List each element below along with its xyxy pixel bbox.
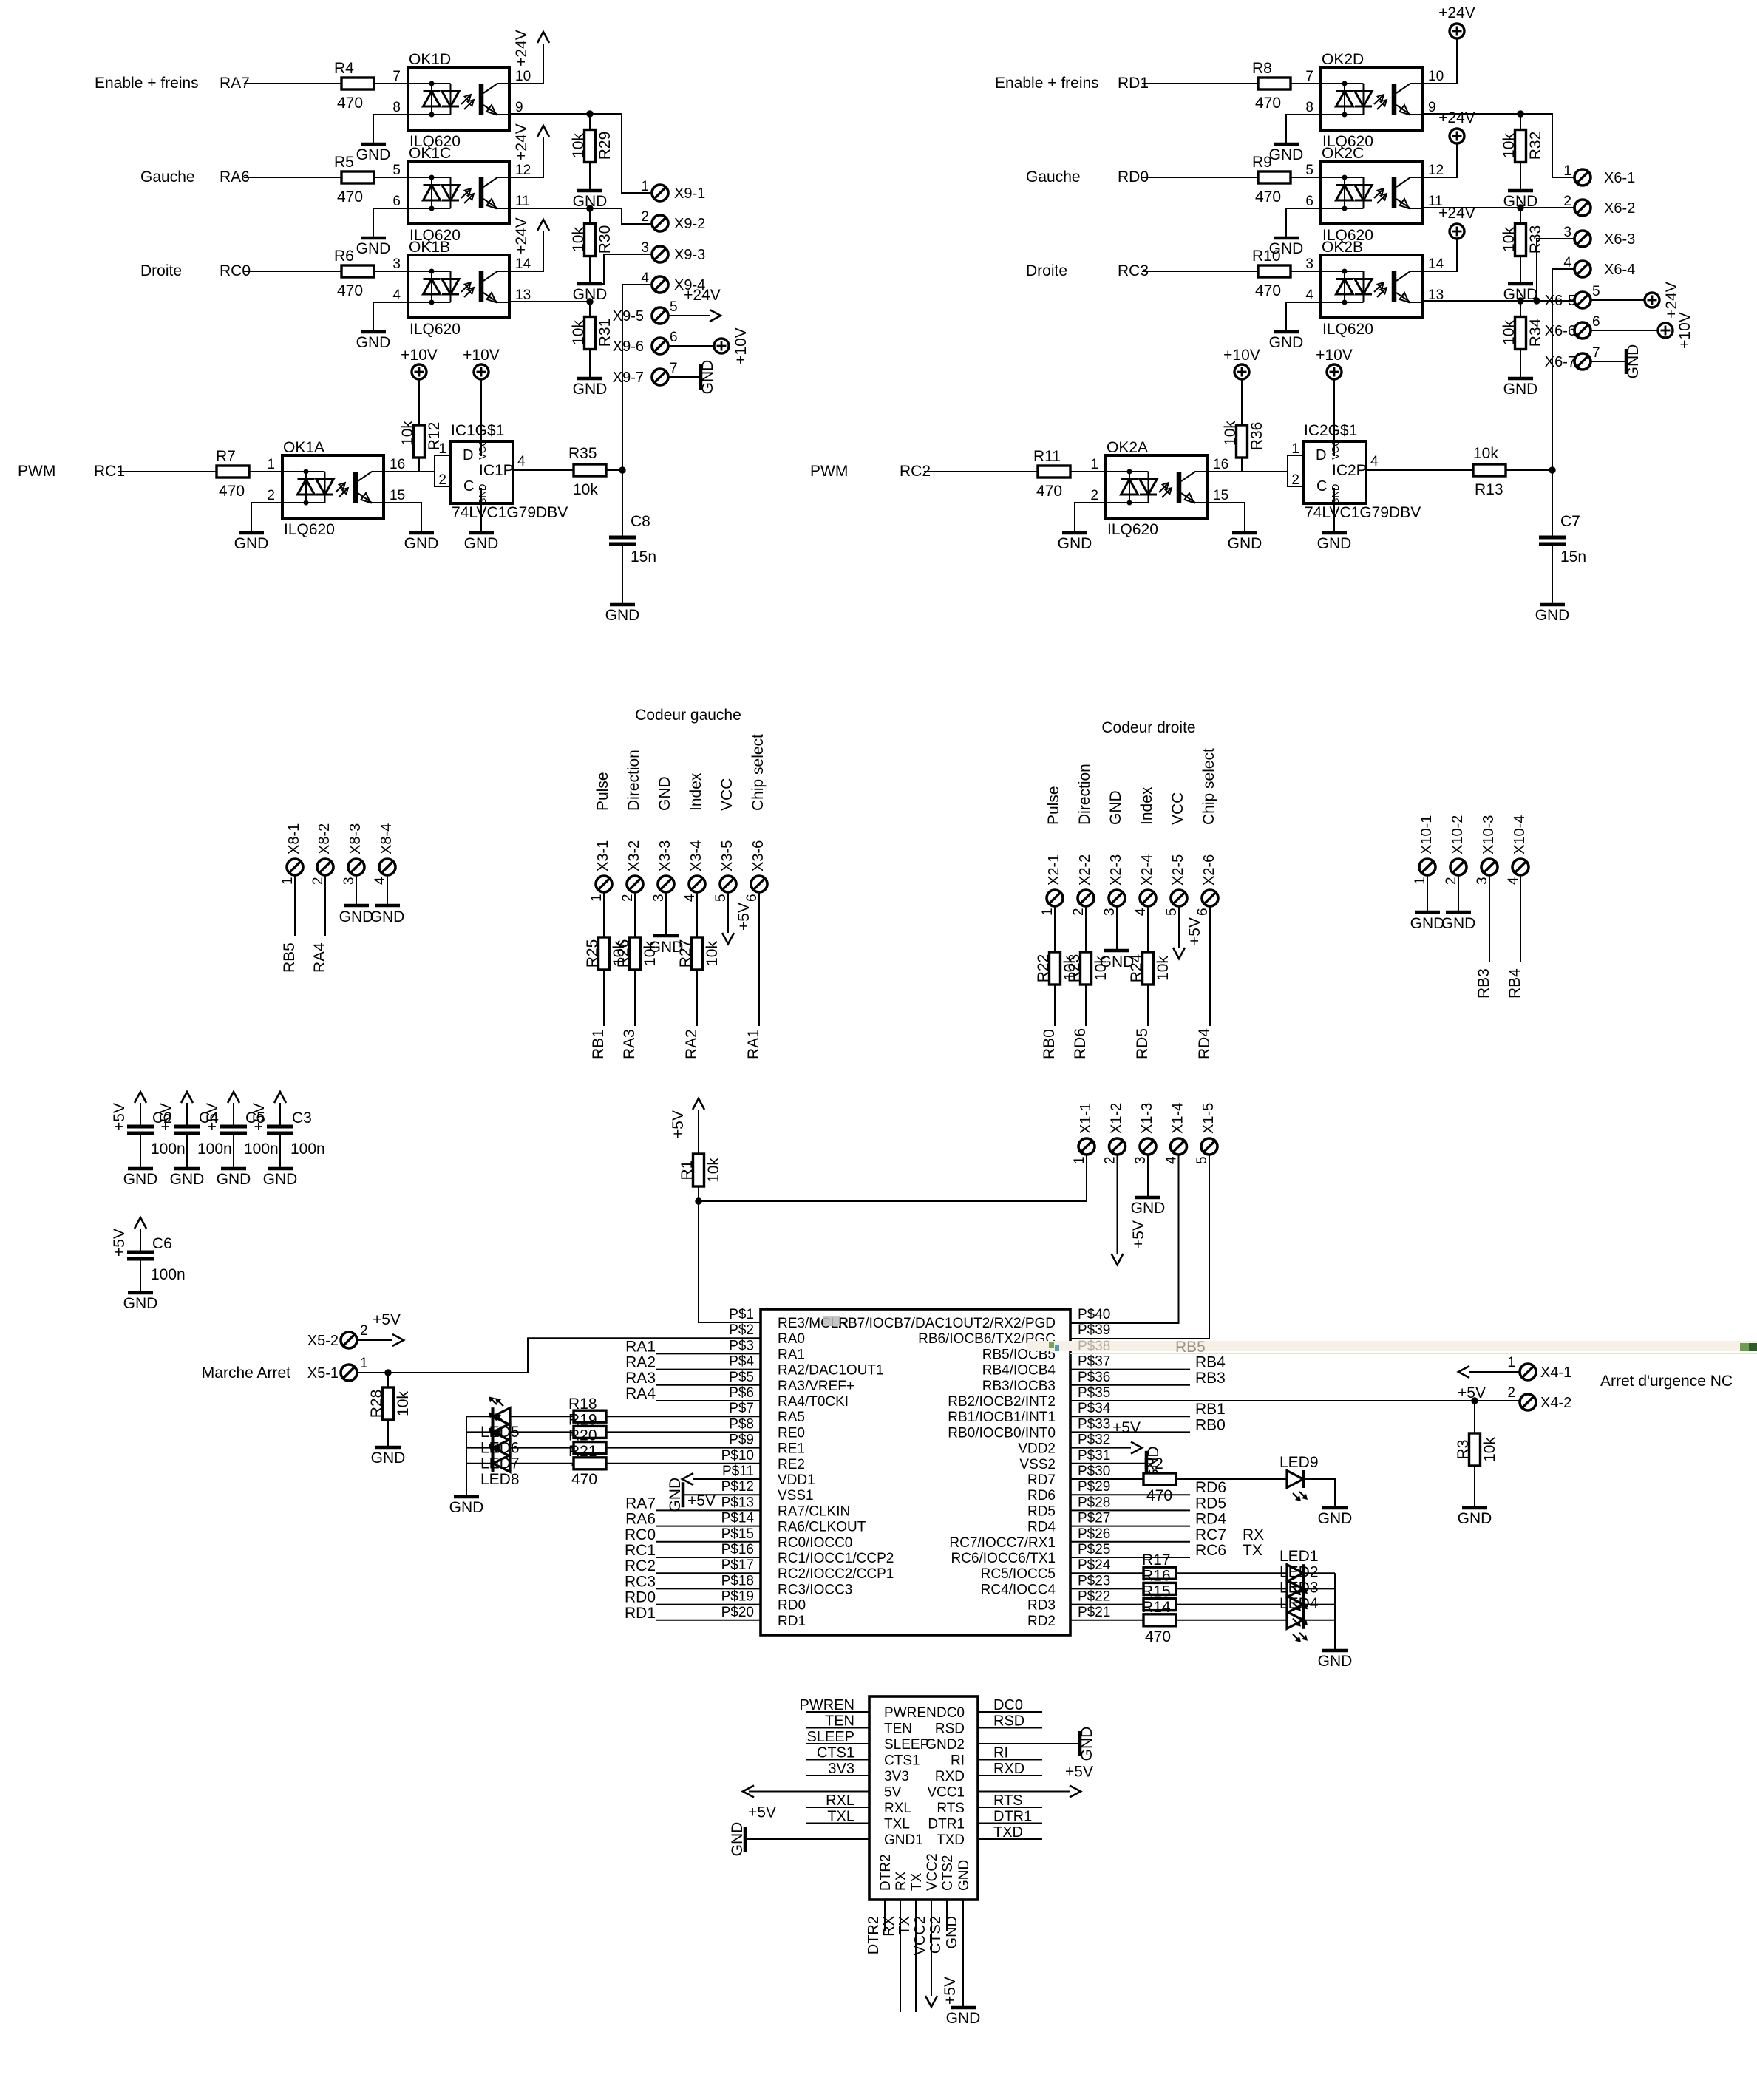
- optocoupler OK1A: [267, 439, 405, 538]
- svg-text:GND: GND: [1228, 535, 1262, 552]
- wire: [1142, 177, 1258, 178]
- signal label Gauche: [140, 169, 195, 186]
- junction: [1517, 110, 1523, 117]
- svg-text:RC5/IOCC5: RC5/IOCC5: [981, 1566, 1056, 1582]
- connector pin X10-4: [1506, 815, 1529, 885]
- svg-text:10k: 10k: [1501, 320, 1518, 345]
- resistor R34: [1501, 301, 1544, 350]
- ground: [1269, 144, 1304, 163]
- optocoupler OK2C: [1305, 145, 1444, 244]
- wire X6-7 gnd: [1591, 361, 1625, 362]
- svg-text:+5V: +5V: [373, 1311, 401, 1328]
- svg-text:+5V: +5V: [1130, 1220, 1147, 1248]
- svg-text:100n: 100n: [244, 1141, 279, 1158]
- supply +24V: [1438, 4, 1475, 38]
- net label RC2: [900, 463, 931, 480]
- svg-text:GND: GND: [464, 535, 499, 552]
- wire: [1070, 1369, 1190, 1370]
- svg-text:R1: R1: [679, 1161, 696, 1180]
- net label TXD: [978, 1824, 1042, 1841]
- wire: [656, 1541, 761, 1543]
- svg-text:+10V: +10V: [1676, 312, 1693, 349]
- ground: [699, 360, 716, 395]
- svg-text:C6: C6: [152, 1235, 172, 1252]
- connector pin X8-1: [280, 823, 303, 885]
- ground: [1503, 349, 1538, 398]
- supply +24V: [1645, 282, 1680, 319]
- svg-text:P$5: P$5: [729, 1370, 754, 1385]
- connector pin X6-6: [1545, 314, 1600, 339]
- ground: [449, 1497, 484, 1516]
- svg-text:C8: C8: [631, 513, 650, 530]
- svg-text:P$10: P$10: [721, 1448, 754, 1464]
- svg-text:Enable + freins: Enable + freins: [995, 75, 1099, 92]
- svg-text:GND: GND: [477, 484, 488, 506]
- ground: [1535, 605, 1570, 624]
- svg-text:7: 7: [1305, 69, 1313, 84]
- resistor R11: [1033, 448, 1070, 500]
- svg-text:X2-3: X2-3: [1108, 854, 1124, 886]
- svg-text:RA1: RA1: [625, 1338, 656, 1355]
- wire: [1286, 115, 1321, 144]
- signal label GND: [1107, 790, 1124, 825]
- net label RC1: [625, 1542, 656, 1559]
- svg-text:Droite: Droite: [1026, 262, 1067, 279]
- svg-text:4: 4: [392, 288, 401, 303]
- signal label Chip select: [750, 734, 767, 811]
- net label DTR2: [866, 1900, 885, 1954]
- svg-text:3: 3: [1102, 908, 1118, 916]
- wire: [1070, 1604, 1143, 1605]
- wire: [373, 208, 408, 238]
- svg-text:GND: GND: [170, 1171, 205, 1188]
- connector pin X1-1: [1072, 1103, 1095, 1164]
- svg-text:TXD: TXD: [993, 1824, 1023, 1841]
- resistor R31: [570, 302, 614, 350]
- wire: [1286, 208, 1321, 238]
- connector pin X6-5: [1545, 284, 1600, 309]
- wire: [466, 1447, 493, 1449]
- svg-text:GND: GND: [605, 607, 640, 624]
- ground: [649, 936, 684, 956]
- svg-text:5: 5: [670, 299, 678, 315]
- wire: [1489, 875, 1490, 962]
- supply +5V: [204, 1092, 239, 1131]
- svg-text:RD7: RD7: [1027, 1472, 1056, 1488]
- connector pin X9-5: [613, 299, 678, 324]
- signal label Direction: [625, 750, 642, 811]
- resistor R27: [677, 892, 721, 1059]
- signal label Enable + freins: [995, 75, 1099, 92]
- svg-text:TX: TX: [909, 1872, 925, 1891]
- svg-text:P$30: P$30: [1078, 1464, 1110, 1479]
- wire: [622, 208, 652, 224]
- wire GND: [944, 1900, 963, 2008]
- resistor R22: [1035, 906, 1078, 1059]
- svg-text:+10V: +10V: [401, 347, 438, 364]
- svg-text:X2-1: X2-1: [1046, 854, 1062, 886]
- wire: [1176, 1620, 1287, 1621]
- svg-text:GND: GND: [656, 776, 673, 811]
- svg-text:RE1: RE1: [778, 1441, 805, 1457]
- svg-text:Droite: Droite: [140, 262, 182, 279]
- svg-text:2: 2: [1507, 1385, 1515, 1401]
- svg-text:4: 4: [641, 271, 649, 286]
- svg-text:RB3: RB3: [1475, 968, 1492, 999]
- svg-text:Enable + freins: Enable + freins: [95, 75, 199, 92]
- supply +5V: [1065, 1764, 1093, 1798]
- wire: [294, 875, 296, 936]
- wire: [1070, 1526, 1190, 1527]
- connector pin X3-1: [589, 840, 612, 902]
- net label RC7 RX: [1195, 1526, 1264, 1543]
- connector pin X2-3: [1102, 854, 1125, 916]
- svg-text:RSD: RSD: [993, 1713, 1024, 1730]
- signal label Chip select: [1200, 748, 1217, 825]
- svg-text:Direction: Direction: [625, 750, 642, 811]
- svg-text:RC3: RC3: [625, 1573, 656, 1590]
- svg-text:4: 4: [1506, 877, 1521, 885]
- wire: [1070, 471, 1106, 472]
- ground: [356, 238, 391, 257]
- svg-text:DC0: DC0: [993, 1697, 1023, 1713]
- capacitor C3: [267, 1103, 325, 1158]
- svg-text:RC1/IOCC1/CCP2: RC1/IOCC1/CCP2: [778, 1551, 894, 1566]
- svg-text:5: 5: [1305, 163, 1313, 178]
- svg-text:LED2: LED2: [1279, 1563, 1319, 1580]
- svg-text:3V3: 3V3: [828, 1761, 854, 1777]
- connector pin X9-2: [641, 209, 705, 232]
- svg-text:LED3: LED3: [1279, 1580, 1319, 1597]
- svg-text:P$31: P$31: [1078, 1448, 1110, 1464]
- svg-text:P$36: P$36: [1078, 1370, 1110, 1385]
- svg-text:TXD: TXD: [937, 1832, 965, 1848]
- connector pin X10-2: [1444, 815, 1467, 885]
- wire: [1304, 1620, 1335, 1621]
- svg-text:CTS2: CTS2: [940, 1855, 956, 1891]
- svg-text:RB1/IOCB1/INT1: RB1/IOCB1/INT1: [948, 1410, 1056, 1425]
- wire: [434, 456, 435, 472]
- supply +24V: [1438, 109, 1475, 143]
- wire: [606, 469, 622, 471]
- connector pin X6-3: [1563, 225, 1635, 248]
- resistor R36: [1222, 379, 1265, 472]
- svg-text:R3: R3: [1455, 1440, 1472, 1460]
- wire: [1070, 1431, 1190, 1433]
- svg-text:VCC2: VCC2: [925, 1853, 940, 1891]
- net label TEN: [806, 1713, 869, 1730]
- junction: [1517, 297, 1540, 304]
- svg-text:X9-1: X9-1: [674, 186, 705, 202]
- svg-text:P$27: P$27: [1078, 1511, 1110, 1526]
- wire LED rail: [466, 1416, 467, 1497]
- svg-text:P$39: P$39: [1078, 1322, 1110, 1338]
- wire: [1070, 1509, 1190, 1511]
- wire: [1116, 906, 1118, 951]
- svg-text:RSD: RSD: [935, 1722, 965, 1737]
- svg-text:6: 6: [1592, 314, 1600, 330]
- svg-text:X6-1: X6-1: [1604, 170, 1635, 186]
- wire: [656, 1588, 761, 1589]
- svg-text:1: 1: [1040, 908, 1056, 916]
- svg-text:X5-1: X5-1: [307, 1365, 339, 1382]
- signal label Droite: [140, 262, 182, 279]
- net label PWREN: [800, 1697, 869, 1713]
- svg-text:R36: R36: [1248, 422, 1265, 451]
- net label RA1: [745, 1029, 762, 1059]
- svg-text:GND: GND: [1318, 1653, 1353, 1670]
- wire: [758, 892, 760, 1026]
- artifact grey: [823, 1316, 840, 1326]
- svg-text:RD0: RD0: [625, 1589, 656, 1606]
- capacitor C6: [127, 1229, 186, 1283]
- svg-text:74LVC1G79DBV: 74LVC1G79DBV: [452, 504, 568, 521]
- svg-text:RC6/IOCC6/TX1: RC6/IOCC6/TX1: [951, 1551, 1056, 1566]
- svg-text:5: 5: [713, 894, 729, 902]
- wire: [1070, 1557, 1190, 1558]
- svg-text:15: 15: [390, 488, 405, 503]
- net label RA4: [311, 942, 328, 973]
- net label RA6: [220, 169, 250, 186]
- svg-text:RA7: RA7: [625, 1495, 656, 1512]
- svg-text:3: 3: [1133, 1156, 1149, 1164]
- wire: [656, 1604, 761, 1605]
- svg-text:100n: 100n: [151, 1266, 186, 1283]
- wire: [387, 875, 388, 905]
- microcontroller U1: [761, 1309, 1070, 1635]
- supply +10V: [714, 327, 750, 364]
- wire: [374, 83, 408, 84]
- svg-text:P$12: P$12: [721, 1479, 754, 1495]
- supply +10V: [1658, 312, 1693, 349]
- svg-text:X9-2: X9-2: [674, 216, 705, 232]
- supply +5V: [1458, 1384, 1486, 1401]
- ground: [170, 1169, 205, 1188]
- wire: [727, 892, 729, 933]
- connector pin X6-2: [1563, 194, 1635, 217]
- svg-text:+5V: +5V: [1112, 1419, 1141, 1436]
- svg-text:9: 9: [515, 100, 523, 115]
- svg-text:7: 7: [392, 69, 401, 84]
- wire: [373, 115, 408, 144]
- svg-text:GND: GND: [123, 1171, 158, 1188]
- svg-text:+24V: +24V: [1438, 109, 1475, 126]
- svg-text:RA2: RA2: [625, 1354, 656, 1371]
- signal label Gauche: [1026, 169, 1081, 186]
- svg-text:P$40: P$40: [1078, 1307, 1110, 1322]
- svg-text:P$29: P$29: [1078, 1479, 1110, 1495]
- svg-text:8: 8: [1305, 100, 1313, 115]
- wire TX: [897, 1900, 916, 2012]
- svg-text:5: 5: [1164, 908, 1180, 916]
- svg-text:470: 470: [337, 95, 363, 112]
- svg-text:P$26: P$26: [1078, 1526, 1110, 1542]
- ground: [1269, 238, 1304, 257]
- svg-text:RC7/IOCC7/RX1: RC7/IOCC7/RX1: [949, 1535, 1056, 1551]
- svg-text:6: 6: [392, 194, 401, 209]
- svg-text:+10V: +10V: [1223, 347, 1260, 364]
- svg-text:GND: GND: [944, 1916, 960, 1948]
- svg-text:P$4: P$4: [729, 1354, 754, 1370]
- svg-text:P$13: P$13: [721, 1495, 754, 1510]
- svg-text:3: 3: [392, 256, 401, 272]
- svg-text:Codeur gauche: Codeur gauche: [635, 707, 741, 724]
- supply +5V down: [1173, 917, 1203, 959]
- junction: [1517, 204, 1523, 211]
- svg-text:RB1: RB1: [1195, 1401, 1226, 1418]
- svg-text:VCC: VCC: [1330, 439, 1341, 459]
- supply +10V: [1316, 347, 1353, 379]
- wire: [606, 1416, 761, 1417]
- svg-text:P$25: P$25: [1078, 1542, 1110, 1557]
- svg-text:IC2G$1: IC2G$1: [1304, 422, 1357, 439]
- resistor R24: [1128, 906, 1172, 1059]
- junction: [1549, 466, 1555, 473]
- net label RC0: [220, 262, 251, 279]
- svg-text:DTR1: DTR1: [928, 1817, 965, 1832]
- connector pin X3-6: [744, 840, 767, 902]
- svg-text:470: 470: [337, 188, 363, 205]
- net label RD1: [1118, 75, 1149, 92]
- svg-text:ILQ620: ILQ620: [1107, 521, 1158, 538]
- svg-text:Direction: Direction: [1076, 764, 1093, 825]
- svg-text:9: 9: [1428, 100, 1436, 115]
- wire X9-3 to gnd: [595, 254, 652, 284]
- svg-text:3: 3: [651, 894, 667, 902]
- net label RB4: [1506, 968, 1523, 999]
- svg-text:RB3/IOCB3: RB3/IOCB3: [982, 1379, 1056, 1394]
- svg-text:470: 470: [1146, 1487, 1172, 1504]
- svg-text:+5V: +5V: [748, 1804, 776, 1821]
- ground: [123, 1169, 158, 1188]
- svg-text:RD1: RD1: [778, 1614, 806, 1629]
- svg-text:+5V: +5V: [1065, 1764, 1093, 1781]
- svg-text:X3-4: X3-4: [688, 840, 704, 871]
- svg-text:R35: R35: [568, 445, 597, 462]
- svg-text:GND: GND: [356, 146, 391, 163]
- svg-text:R9: R9: [1252, 154, 1272, 171]
- supply +5V P$11: [682, 1473, 761, 1509]
- svg-text:RD4: RD4: [1196, 1028, 1213, 1059]
- net label 3V3: [806, 1761, 869, 1777]
- wire: [1176, 1478, 1287, 1480]
- svg-text:3: 3: [641, 240, 649, 256]
- svg-text:R13: R13: [1475, 481, 1503, 498]
- svg-text:R30: R30: [597, 225, 614, 254]
- svg-text:12: 12: [1428, 163, 1444, 178]
- svg-text:P$34: P$34: [1078, 1401, 1111, 1416]
- net label RD0: [625, 1589, 656, 1606]
- svg-text:GND: GND: [263, 1171, 298, 1188]
- wire 5V: [749, 1791, 869, 1793]
- svg-text:P$2: P$2: [729, 1322, 754, 1338]
- svg-text:4: 4: [682, 894, 698, 902]
- wire: [233, 1133, 234, 1169]
- svg-text:R25: R25: [584, 939, 601, 968]
- ground: [729, 1822, 746, 1857]
- svg-text:1: 1: [1563, 163, 1571, 179]
- wire: [118, 471, 217, 472]
- wire: [1070, 1494, 1190, 1495]
- svg-text:X2-5: X2-5: [1170, 854, 1186, 886]
- led LED1: [1279, 1548, 1319, 1595]
- svg-text:2: 2: [1444, 877, 1459, 885]
- svg-text:PWM: PWM: [810, 463, 848, 480]
- ground: [123, 1293, 158, 1312]
- signal label PWM: [18, 463, 55, 480]
- svg-text:GND: GND: [217, 1171, 251, 1188]
- svg-text:SLEEP: SLEEP: [807, 1729, 854, 1745]
- svg-text:P$8: P$8: [729, 1416, 754, 1432]
- svg-text:GND: GND: [1058, 535, 1092, 552]
- ground: [339, 905, 374, 925]
- resistor R1: [679, 1110, 722, 1201]
- svg-text:OK1D: OK1D: [409, 51, 451, 68]
- wire X1-4 to P$40: [1070, 1155, 1179, 1323]
- svg-text:RC4/IOCC4: RC4/IOCC4: [981, 1582, 1056, 1597]
- svg-text:CTS2: CTS2: [928, 1916, 944, 1954]
- svg-text:10k: 10k: [399, 421, 416, 446]
- svg-text:GND: GND: [1535, 607, 1570, 624]
- svg-text:14: 14: [1428, 256, 1444, 272]
- svg-text:P$38: P$38: [1078, 1339, 1110, 1354]
- svg-text:SLEEP: SLEEP: [884, 1737, 929, 1753]
- svg-text:RB5: RB5: [281, 942, 298, 973]
- svg-text:12: 12: [515, 163, 531, 178]
- svg-text:5V: 5V: [884, 1785, 902, 1801]
- svg-text:RD6: RD6: [1072, 1028, 1089, 1059]
- wire: [656, 1620, 761, 1621]
- svg-text:RD4: RD4: [1027, 1520, 1056, 1535]
- ground: [1131, 1197, 1166, 1217]
- svg-text:R23: R23: [1066, 954, 1083, 983]
- svg-text:TXL: TXL: [884, 1817, 910, 1832]
- svg-text:100n: 100n: [197, 1141, 232, 1158]
- supply +5V down: [925, 1977, 959, 2007]
- net label DTR1: [978, 1809, 1042, 1825]
- svg-text:R14: R14: [1142, 1599, 1171, 1616]
- svg-text:RA5: RA5: [778, 1410, 805, 1425]
- svg-text:C: C: [463, 478, 474, 495]
- svg-text:P$37: P$37: [1078, 1354, 1110, 1370]
- junction: [586, 205, 593, 211]
- connector pin X9-6: [613, 330, 678, 355]
- svg-text:P$15: P$15: [721, 1526, 754, 1542]
- svg-text:RA3: RA3: [621, 1029, 638, 1059]
- net label SLEEP: [806, 1729, 869, 1745]
- net label RC0: [625, 1526, 656, 1543]
- wire: [324, 875, 326, 936]
- svg-text:GND: GND: [1625, 344, 1642, 379]
- wire: [656, 1384, 761, 1386]
- wire: [1209, 906, 1211, 1026]
- svg-text:6: 6: [670, 330, 678, 345]
- svg-text:2: 2: [360, 1323, 368, 1339]
- ground P$31: [1070, 1446, 1162, 1481]
- svg-text:DTR2: DTR2: [866, 1916, 882, 1954]
- svg-text:P$24: P$24: [1078, 1557, 1111, 1573]
- connector pin X8-3: [341, 823, 364, 885]
- svg-text:Index: Index: [687, 772, 704, 811]
- svg-text:RC6: RC6: [1195, 1542, 1226, 1559]
- svg-text:C7: C7: [1560, 513, 1580, 530]
- wire: [244, 271, 341, 272]
- led LED9: [1279, 1454, 1319, 1501]
- svg-text:GND: GND: [573, 381, 608, 398]
- wire RX: [881, 1900, 900, 2012]
- net label RB0: [1195, 1416, 1226, 1433]
- junction: [619, 466, 625, 473]
